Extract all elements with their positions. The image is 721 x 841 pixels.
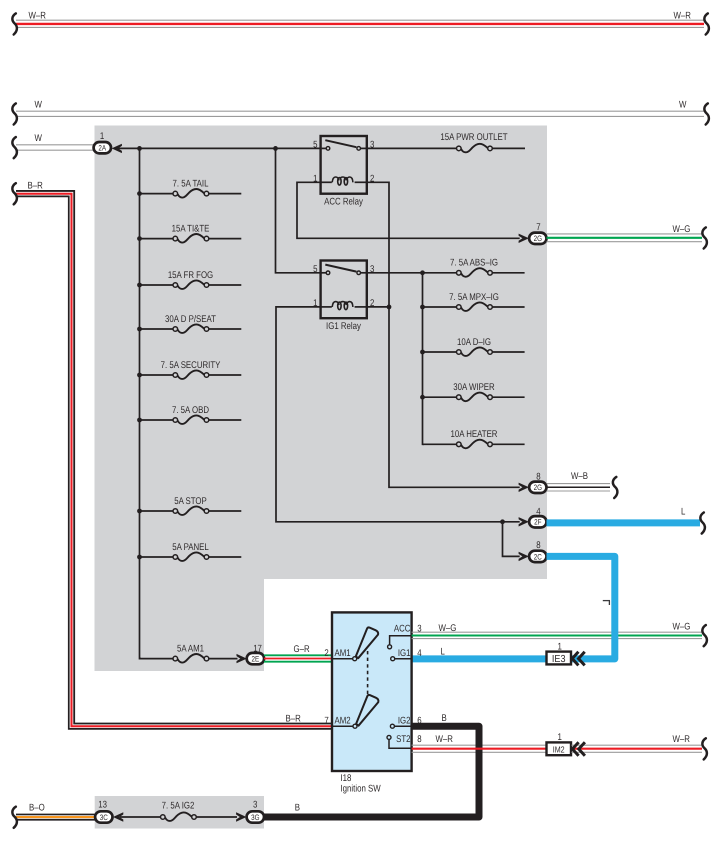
wire FR FOG row xyxy=(140,284,242,286)
svg-text:8: 8 xyxy=(536,471,540,482)
junction block lower-left gray extension xyxy=(95,570,265,671)
svg-text:B: B xyxy=(295,802,300,813)
break symbol W-B right xyxy=(613,477,618,498)
svg-text:ACC Relay: ACC Relay xyxy=(324,196,363,207)
svg-text:5: 5 xyxy=(313,139,317,150)
svg-text:B–R: B–R xyxy=(28,180,43,191)
connector 3G xyxy=(247,811,264,822)
wire IG2 fuse row xyxy=(120,816,237,818)
lever of AM2 xyxy=(356,695,378,726)
node right bus MPX xyxy=(420,305,425,310)
connector 2A xyxy=(94,142,111,153)
connector IE3 xyxy=(547,652,572,666)
wire ACC pin1 to connector 2G pin7 xyxy=(297,182,520,238)
wire IG1 pin1 to connector 2F xyxy=(276,307,520,522)
svg-text:10A HEATER: 10A HEATER xyxy=(451,429,498,440)
wire PANEL row xyxy=(140,556,242,558)
svg-text:B–O: B–O xyxy=(29,803,45,814)
svg-text:W: W xyxy=(35,133,43,144)
svg-text:ST2: ST2 xyxy=(396,734,410,745)
connector IM2 xyxy=(547,742,572,755)
svg-text:G–R: G–R xyxy=(294,644,310,655)
break symbol left of W-R wire xyxy=(12,13,17,34)
ST2 terminal of ignition xyxy=(387,735,412,748)
svg-text:7. 5A OBD: 7. 5A OBD xyxy=(172,405,209,416)
fuse 10A HEATER xyxy=(451,429,498,448)
break symbol B-O left xyxy=(12,807,17,828)
dashed mechanical link xyxy=(367,651,369,696)
wire TAIL row xyxy=(140,193,242,195)
svg-text:5A AM1: 5A AM1 xyxy=(177,643,204,654)
svg-text:2C: 2C xyxy=(534,552,542,561)
svg-text:W–R: W–R xyxy=(436,734,453,745)
break symbol left of short W wire xyxy=(12,137,17,158)
wire W full-width xyxy=(16,111,704,116)
svg-text:17: 17 xyxy=(253,644,262,655)
svg-text:IM2: IM2 xyxy=(553,745,565,755)
svg-text:8: 8 xyxy=(417,734,421,745)
svg-text:7. 5A TAIL: 7. 5A TAIL xyxy=(173,178,209,189)
wire L from ignition IG1 to IE3 (blue) xyxy=(412,655,548,662)
wire branch to 2C xyxy=(503,522,520,557)
double arrow at IE3 xyxy=(572,652,585,666)
wire W short into 2A xyxy=(16,145,94,150)
wire W-R ST2 white lines xyxy=(412,745,547,752)
wire G-R from 2E to AM1 xyxy=(264,655,332,661)
break symbol W-G ACC right xyxy=(702,625,707,646)
node right bus WIPER xyxy=(420,395,425,400)
fuse 5A PANEL xyxy=(172,542,209,561)
svg-text:IG1 Relay: IG1 Relay xyxy=(326,321,361,332)
svg-text:2G: 2G xyxy=(534,483,542,492)
svg-text:1: 1 xyxy=(558,732,562,743)
wire ACC pin2 / IG1 pin2 to connector 2G pin8 xyxy=(367,182,520,487)
wire ABS-IG row xyxy=(492,272,524,274)
node left bus TAIL xyxy=(137,191,142,196)
fuse 7.5A MPX-IG xyxy=(449,292,499,311)
wire W-G from ACC to right xyxy=(412,632,702,638)
wire W-R from ST2 to IM2 xyxy=(412,748,547,750)
wire TI&TE row xyxy=(140,238,242,240)
connector 2E xyxy=(247,653,264,664)
fuse 5A STOP xyxy=(173,496,209,515)
IG2 terminal of ignition xyxy=(390,724,411,728)
svg-text:B: B xyxy=(442,713,447,724)
svg-text:4: 4 xyxy=(536,507,541,518)
svg-text:2: 2 xyxy=(324,648,328,659)
wire L from 2F xyxy=(547,519,701,526)
svg-text:3G: 3G xyxy=(251,813,259,822)
svg-text:10A D–IG: 10A D–IG xyxy=(457,337,491,348)
svg-text:7. 5A MPX–IG: 7. 5A MPX–IG xyxy=(449,292,499,303)
wire HEATER row xyxy=(423,443,525,445)
svg-text:30A WIPER: 30A WIPER xyxy=(453,382,494,393)
svg-text:W–R: W–R xyxy=(29,11,46,22)
bottom fuse gray box xyxy=(95,796,264,829)
break symbol W-R bottom right xyxy=(702,738,707,759)
wire AM1 row xyxy=(140,658,238,660)
svg-text:4: 4 xyxy=(417,648,422,659)
arrow into 2E xyxy=(237,654,247,663)
break symbol B-R left xyxy=(12,183,17,204)
svg-text:7. 5A ABS–IG: 7. 5A ABS–IG xyxy=(450,258,498,269)
svg-text:W–G: W–G xyxy=(673,622,691,633)
ignition switch I18 box xyxy=(332,612,412,771)
arrow into 2C xyxy=(519,552,529,561)
double arrow at IM2 xyxy=(572,742,585,756)
fuse 30A WIPER xyxy=(453,382,494,401)
wire IG1 pin3 to right fuse bus xyxy=(367,272,457,274)
node coil junction xyxy=(387,305,392,310)
arrow into 2G pin7 xyxy=(519,234,529,243)
svg-text:2A: 2A xyxy=(98,144,106,153)
wire IG1 pin2 stub xyxy=(367,306,389,308)
svg-text:L: L xyxy=(681,507,686,518)
fuse 5A AM1 xyxy=(173,643,209,662)
node right bus D-IG xyxy=(420,350,425,355)
fuse 15A TI&TE xyxy=(172,223,210,242)
wire W-R top xyxy=(16,20,704,27)
svg-text:2E: 2E xyxy=(252,655,260,664)
svg-text:7. 5A SECURITY: 7. 5A SECURITY xyxy=(161,360,221,371)
fuse 7.5A IG2 xyxy=(161,801,197,821)
wire W-B from 2G pin8 xyxy=(547,484,611,491)
node left bus FR FOG xyxy=(137,283,142,288)
svg-text:B–R: B–R xyxy=(286,714,301,725)
fuse 7.5A TAIL xyxy=(173,178,209,197)
arrow into 2G pin8 xyxy=(519,483,529,492)
ACC terminal of ignition xyxy=(388,636,412,649)
node left bus SECURITY xyxy=(137,373,142,378)
break symbol right of W wire xyxy=(704,103,709,124)
fuse 7.5A ABS-IG xyxy=(450,258,498,277)
svg-text:IE3: IE3 xyxy=(552,654,566,665)
svg-text:15A TI&TE: 15A TI&TE xyxy=(172,223,210,234)
svg-text:15A FR FOG: 15A FR FOG xyxy=(168,270,213,281)
svg-text:5A STOP: 5A STOP xyxy=(174,496,207,507)
svg-text:Ignition SW: Ignition SW xyxy=(341,783,382,794)
fuse 7.5A SECURITY xyxy=(161,360,221,379)
wire OBD row xyxy=(140,419,242,421)
svg-text:15A PWR OUTLET: 15A PWR OUTLET xyxy=(440,132,507,143)
ACC relay U-ACC xyxy=(321,136,367,194)
middle bus wire to IG1 relay pin5 xyxy=(276,148,323,272)
svg-text:W–G: W–G xyxy=(439,623,457,634)
svg-text:ACC: ACC xyxy=(394,623,411,634)
connector 2C xyxy=(529,551,546,562)
IG1 terminal of ignition xyxy=(391,657,412,661)
right bus wire xyxy=(423,273,425,445)
svg-text:5A PANEL: 5A PANEL xyxy=(172,542,209,553)
svg-text:7: 7 xyxy=(536,222,540,233)
node right bus top xyxy=(420,270,425,275)
AM2 terminal of ignition xyxy=(332,724,357,728)
arrow out of 3C xyxy=(113,812,123,821)
svg-text:2F: 2F xyxy=(534,518,542,527)
left bus wire xyxy=(140,148,142,658)
node left bus STOP xyxy=(137,509,142,514)
fuse 30A D P/SEAT xyxy=(165,314,216,333)
connector 2G pin8 xyxy=(529,482,546,493)
wire D-IG row xyxy=(423,351,525,353)
svg-text:IG1: IG1 xyxy=(398,648,411,659)
svg-text:IG2: IG2 xyxy=(398,715,411,726)
node 2F/2C split xyxy=(500,519,505,524)
svg-text:1: 1 xyxy=(558,641,562,652)
wire B-O from left to 3C xyxy=(16,814,96,821)
break symbol L right xyxy=(700,513,705,534)
svg-text:3: 3 xyxy=(253,800,257,811)
thick B wire from IG2 down to 3G xyxy=(264,726,479,817)
svg-text:W–R: W–R xyxy=(674,11,691,22)
svg-text:W–R: W–R xyxy=(673,734,690,745)
wire STOP row xyxy=(140,510,242,512)
node at left bus top xyxy=(137,146,142,151)
svg-text:13: 13 xyxy=(98,800,107,811)
wire ACC pin3 to PWR OUTLET fuse xyxy=(367,147,525,149)
lever of AM1 xyxy=(356,627,378,658)
node left bus PANEL xyxy=(137,555,142,560)
wire D P/SEAT row xyxy=(140,328,242,330)
svg-text:30A D P/SEAT: 30A D P/SEAT xyxy=(165,314,216,325)
svg-text:1: 1 xyxy=(100,131,104,142)
svg-text:W–G: W–G xyxy=(673,224,691,235)
arrow into 2F xyxy=(519,517,529,526)
fuse 15A PWR OUTLET xyxy=(440,132,507,152)
svg-text:2G: 2G xyxy=(534,234,542,243)
node left bus OBD xyxy=(137,418,142,423)
wire MPX-IG row xyxy=(423,306,525,308)
connector 2G pin7 xyxy=(529,233,546,244)
svg-text:7. 5A IG2: 7. 5A IG2 xyxy=(162,801,195,812)
svg-text:AM2: AM2 xyxy=(335,715,351,726)
node left bus D P/SEAT xyxy=(137,327,142,332)
svg-text:W: W xyxy=(679,100,687,111)
wire W-G from 2G pin7 xyxy=(547,234,703,242)
svg-text:W–B: W–B xyxy=(571,471,588,482)
connector 2F xyxy=(529,516,546,527)
svg-text:8: 8 xyxy=(536,540,540,551)
node at middle bus top xyxy=(273,146,278,151)
main feed line from 2A xyxy=(118,147,322,149)
fuse 10A D-IG xyxy=(457,337,493,356)
svg-text:7: 7 xyxy=(324,715,328,726)
label L rotated on vertical blue wire xyxy=(603,601,610,605)
svg-text:AM1: AM1 xyxy=(335,648,351,659)
svg-text:L: L xyxy=(441,647,446,658)
arrow into 2A xyxy=(112,144,122,153)
AM1 terminal of ignition xyxy=(332,657,357,661)
break symbol left of W wire xyxy=(12,103,17,124)
wire SECURITY row xyxy=(140,374,242,376)
svg-text:5: 5 xyxy=(313,264,317,275)
node left bus TI&TE xyxy=(137,236,142,241)
wire WIPER row xyxy=(423,396,525,398)
connector 3C xyxy=(95,811,112,822)
break symbol right of W-R wire xyxy=(704,13,709,34)
arrow into 3G xyxy=(236,812,246,821)
break symbol W-G right xyxy=(702,227,707,248)
junction block main gray box xyxy=(95,126,548,580)
svg-text:3C: 3C xyxy=(100,813,108,822)
IG1 relay U-IG1 xyxy=(321,261,367,319)
wire L from 2C to IE3 (blue bent) xyxy=(547,556,615,659)
wire W-R from IM2 to right xyxy=(572,745,703,752)
wire B-R from left to AM2 xyxy=(16,194,332,727)
fuse 15A FR FOG xyxy=(168,270,213,289)
svg-text:W: W xyxy=(35,100,43,111)
fuse 7.5A OBD xyxy=(172,405,209,424)
